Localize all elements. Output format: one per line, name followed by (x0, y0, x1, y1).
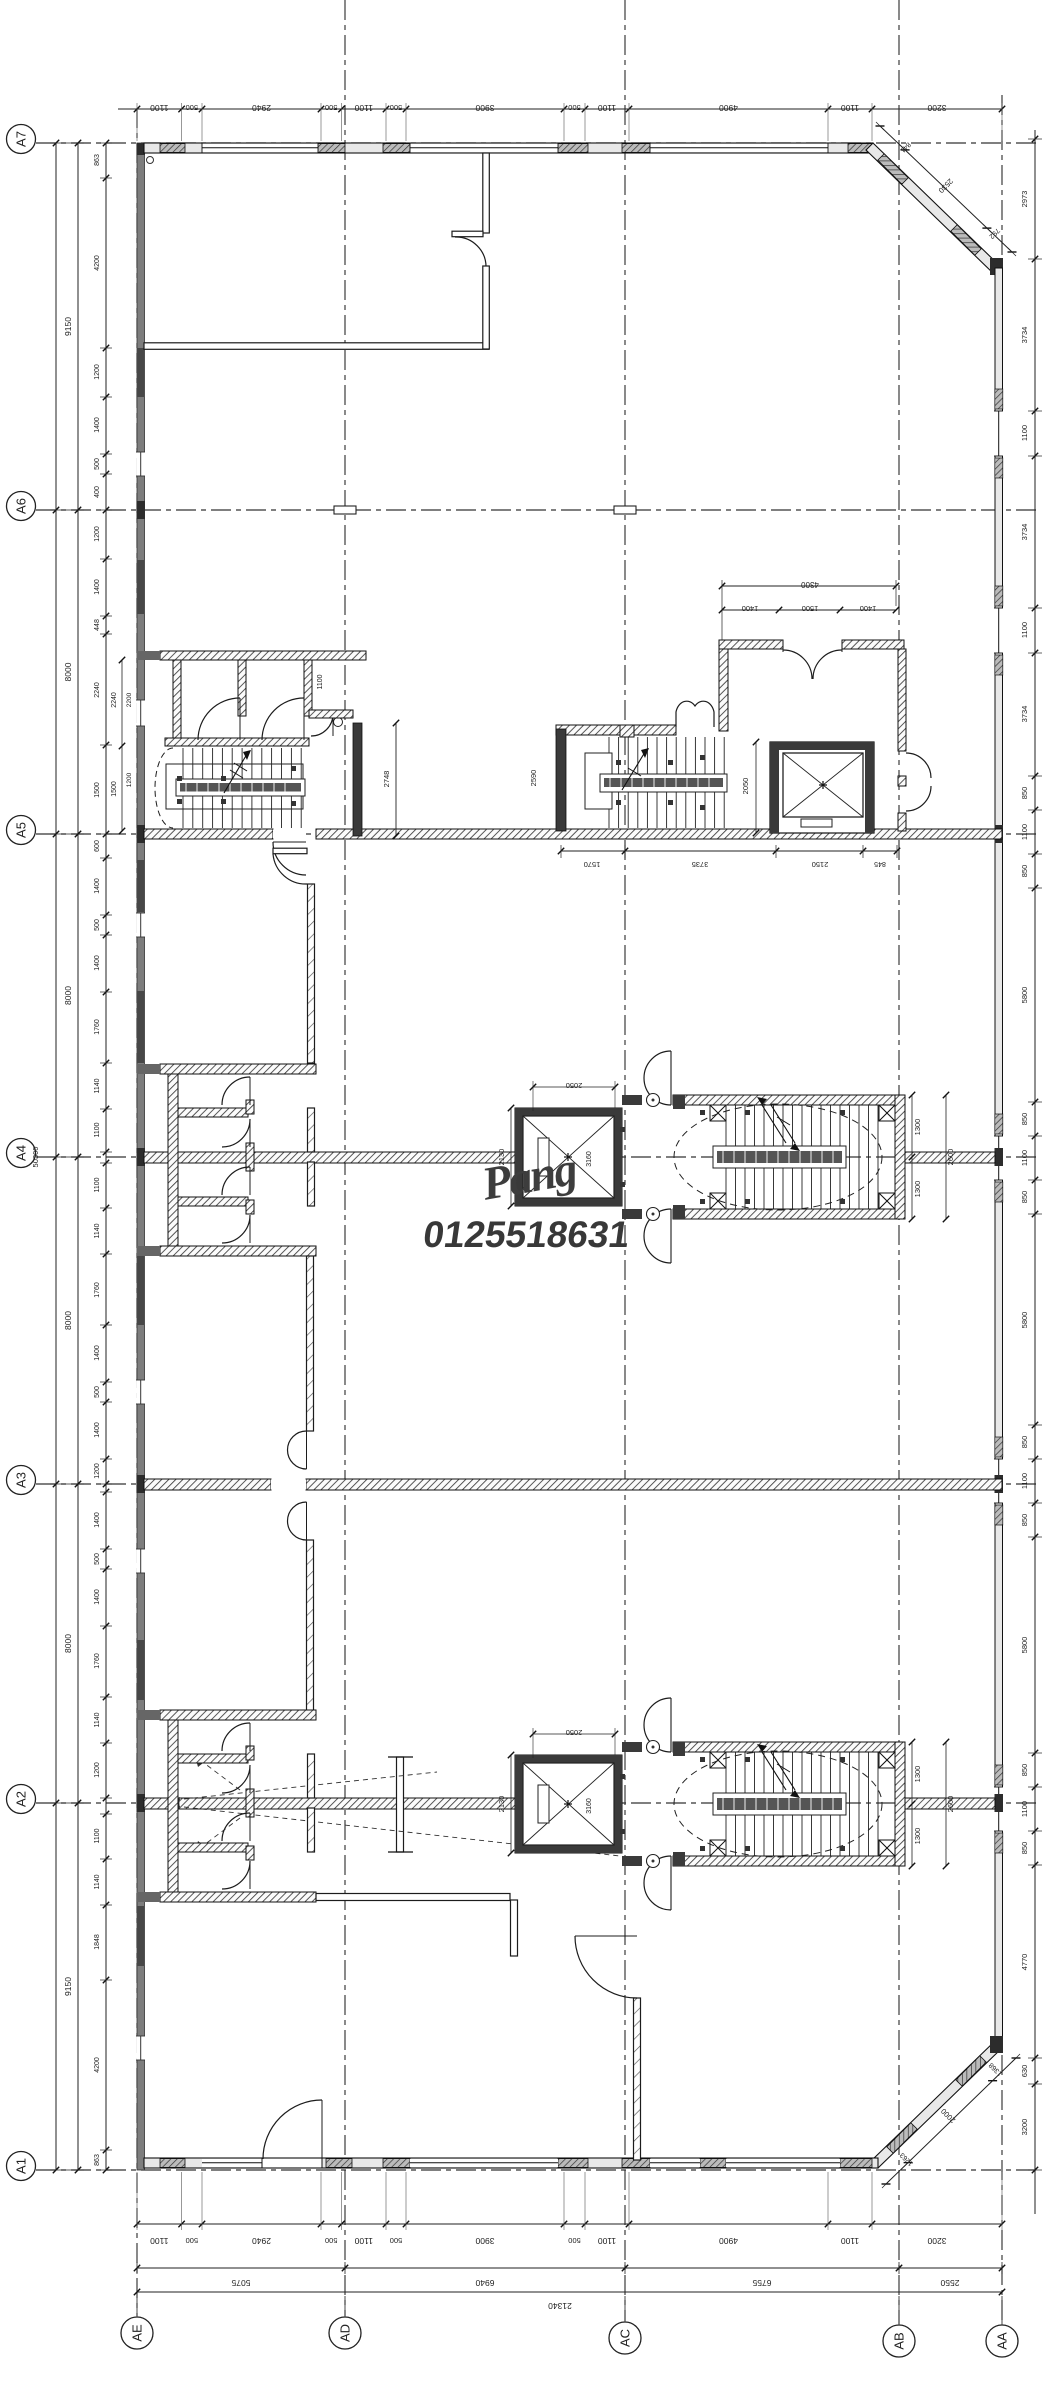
svg-text:2973: 2973 (1020, 191, 1029, 208)
svg-text:500: 500 (325, 2236, 338, 2245)
svg-text:4900: 4900 (719, 103, 738, 113)
grid AC wall stub in core (620, 725, 634, 737)
room door bay A2-A1 (575, 1936, 637, 1998)
wall on grid A4 left (144, 1152, 515, 1163)
svg-text:1500: 1500 (111, 781, 118, 797)
svg-text:850: 850 (1020, 787, 1029, 800)
wall right of stair (309, 710, 362, 836)
svg-text:6940: 6940 (475, 2278, 494, 2288)
svg-text:1100: 1100 (150, 103, 169, 113)
svg-text:1300: 1300 (913, 1119, 922, 1136)
top dimension chain (118, 103, 1005, 141)
svg-text:1200: 1200 (94, 526, 101, 542)
svg-text:1100: 1100 (94, 1122, 101, 1137)
watermark phone number (421, 1213, 633, 1255)
svg-text:21340: 21340 (548, 2301, 572, 2311)
stair tread markers (177, 766, 296, 806)
grid line AB (vertical) (898, 0, 900, 2324)
svg-text:1140: 1140 (94, 1078, 101, 1093)
svg-text:2600: 2600 (946, 1149, 955, 1166)
svg-text:400: 400 (94, 486, 101, 498)
svg-text:2050: 2050 (741, 778, 750, 795)
svg-text:0125518631: 0125518631 (421, 1213, 633, 1255)
local dims 2240 1500 (111, 657, 133, 834)
svg-text:4770: 4770 (1020, 1954, 1029, 1971)
elevator dims at A2 (497, 1728, 618, 1856)
toilet cluster at grid A2: doors (222, 1723, 250, 1889)
grid line AC (vertical) (624, 0, 626, 2321)
grid bubble A4 (7, 1139, 36, 1168)
dimension 2748 (382, 720, 399, 839)
svg-text:1100: 1100 (1020, 1473, 1029, 1489)
door at bottom wall (263, 2100, 322, 2159)
svg-text:630: 630 (1020, 2065, 1029, 2078)
bottom exterior wall (144, 2158, 878, 2168)
svg-text:8000: 8000 (63, 662, 73, 681)
svg-text:1100: 1100 (317, 674, 324, 689)
svg-text:1100: 1100 (1020, 425, 1029, 441)
svg-text:1300: 1300 (913, 1828, 922, 1845)
stair dims right of A4 core (909, 1092, 955, 1222)
svg-text:1200: 1200 (94, 1463, 101, 1479)
svg-text:863: 863 (94, 154, 101, 166)
svg-text:1140: 1140 (94, 1223, 101, 1238)
stair break line and arrows at A4 (757, 1097, 800, 1151)
svg-text:500: 500 (325, 103, 338, 112)
svg-text:A7: A7 (14, 131, 29, 147)
svg-text:8000: 8000 (63, 1634, 73, 1653)
svg-text:A6: A6 (14, 498, 29, 514)
wall extension below A2 cluster (316, 1894, 518, 1957)
svg-text:3160: 3160 (586, 1798, 593, 1814)
demolition dashed arrows at A2 (168, 1756, 620, 1856)
grid bubble AD (329, 2317, 361, 2349)
svg-text:9150: 9150 (63, 317, 73, 336)
svg-text:1400: 1400 (94, 1512, 101, 1528)
top wall corner circle detail (147, 157, 154, 164)
svg-text:850: 850 (1020, 1436, 1029, 1449)
watermark Pang (477, 1143, 581, 1211)
stair treads at A4 (713, 1105, 878, 1209)
svg-text:1400: 1400 (742, 604, 759, 613)
svg-text:9150: 9150 (63, 1977, 73, 1996)
dims 1400 1500 1400 (719, 604, 899, 613)
stair arrow right core (622, 748, 649, 790)
stair walls at A2 (622, 1742, 905, 1866)
svg-text:A1: A1 (14, 2158, 29, 2174)
svg-text:8000: 8000 (63, 986, 73, 1005)
svg-text:2748: 2748 (382, 771, 391, 788)
bottom-right angled exterior wall (871, 2036, 1003, 2168)
svg-text:500: 500 (94, 1386, 101, 1398)
svg-text:1100: 1100 (354, 103, 373, 113)
svg-text:AC: AC (618, 2329, 633, 2347)
svg-text:850: 850 (1020, 1764, 1029, 1777)
svg-text:3900: 3900 (475, 2236, 494, 2246)
toilet doors bay A6-A5 (198, 698, 304, 740)
top-right angled dimension chain (876, 122, 1017, 256)
svg-text:8000: 8000 (63, 1311, 73, 1330)
grid bubble AC (609, 2322, 641, 2354)
svg-text:850: 850 (1020, 1191, 1029, 1204)
stair corner posts at A2 (710, 1752, 895, 1856)
svg-text:500: 500 (94, 458, 101, 470)
svg-text:1400: 1400 (94, 1589, 101, 1605)
stair dims right of A2 core (909, 1739, 955, 1869)
wall on grid A3 (144, 1479, 1002, 1490)
svg-text:1100: 1100 (841, 2236, 860, 2246)
svg-text:AB: AB (892, 2332, 907, 2349)
svg-text:1400: 1400 (94, 579, 101, 595)
svg-text:5800: 5800 (1020, 1312, 1029, 1329)
grid bubble A1 (7, 2152, 36, 2181)
left exterior wall (136, 143, 145, 2170)
svg-text:500: 500 (94, 1553, 101, 1565)
door in upper-left room (452, 231, 486, 268)
entrance double door (783, 649, 842, 679)
svg-text:1100: 1100 (1020, 1801, 1029, 1817)
svg-text:1400: 1400 (94, 1345, 101, 1361)
grid bubble AB (883, 2325, 915, 2357)
svg-text:A2: A2 (14, 1791, 29, 1807)
svg-text:1100: 1100 (94, 1177, 101, 1192)
svg-text:3734: 3734 (1020, 706, 1029, 723)
svg-text:1570: 1570 (584, 860, 601, 869)
grid bubble A3 (7, 1466, 36, 1495)
stair treads at A2 (713, 1752, 878, 1856)
svg-text:500: 500 (390, 103, 403, 112)
svg-text:2590: 2590 (529, 770, 538, 787)
grid bubble A7 (7, 125, 36, 154)
grid line AD (vertical) (344, 0, 346, 2316)
svg-text:1300: 1300 (913, 1766, 922, 1783)
stair dashed ellipse at A2 (674, 1751, 882, 1857)
svg-text:1100: 1100 (150, 2236, 169, 2246)
grid line A1 (horizontal) (36, 2169, 1040, 2171)
svg-text:A3: A3 (14, 1472, 29, 1488)
bottom dimension chain row 1 (134, 2172, 1005, 2246)
stair tread markers right core (616, 755, 705, 810)
grid line A3 (horizontal) (36, 1483, 1040, 1485)
svg-text:1100: 1100 (354, 2236, 373, 2246)
room wall bay A3-A2 vertical (307, 1540, 314, 1712)
svg-text:2600: 2600 (946, 1796, 955, 1813)
svg-text:1400: 1400 (94, 955, 101, 971)
svg-text:4200: 4200 (94, 2057, 101, 2073)
grid bubble A6 (7, 492, 36, 521)
stair bay A6-A5 right (556, 729, 727, 831)
svg-text:600: 600 (94, 840, 101, 852)
svg-text:1100: 1100 (94, 1828, 101, 1843)
swing doors at A3 wall (271, 1431, 307, 1540)
svg-text:1400: 1400 (94, 878, 101, 894)
stair corner posts at A4 (710, 1105, 895, 1209)
stair bay A6-A5 (166, 748, 305, 828)
svg-text:1400: 1400 (94, 1422, 101, 1438)
svg-text:1100: 1100 (1020, 1150, 1029, 1166)
svg-text:1100: 1100 (598, 103, 617, 113)
scalloped feature next to stair (676, 701, 714, 727)
room door bay A5-A4 (273, 848, 307, 884)
toilet block walls bay A6-A5 (137, 651, 366, 746)
door in A5 wall (273, 830, 306, 876)
left overall dimension lines (31, 140, 84, 2173)
svg-text:2940: 2940 (252, 2236, 271, 2246)
svg-text:2940: 2940 (252, 103, 271, 113)
svg-text:2050: 2050 (566, 1081, 583, 1090)
svg-text:500: 500 (94, 919, 101, 931)
svg-text:850: 850 (1020, 1514, 1029, 1527)
svg-text:448: 448 (94, 619, 101, 631)
svg-text:1848: 1848 (94, 1934, 101, 1950)
svg-text:1760: 1760 (94, 1653, 101, 1669)
wall on grid A5 (144, 829, 1002, 839)
grid bubble AE (121, 2317, 153, 2349)
svg-text:500: 500 (186, 103, 199, 112)
svg-text:1500: 1500 (94, 782, 101, 798)
T-shaped wall stub on A2 (388, 1757, 413, 1852)
bottom-right angled dimension chain (882, 2054, 1021, 2188)
svg-text:AA: AA (995, 2332, 1010, 2350)
svg-text:850: 850 (1020, 1842, 1029, 1855)
svg-text:6755: 6755 (752, 2278, 771, 2288)
grid bubble A2 (7, 1785, 36, 1814)
grid line A4 (horizontal) (36, 1156, 1040, 1158)
grid line A2 (horizontal) (36, 1802, 1040, 1804)
svg-text:2150: 2150 (812, 860, 829, 869)
svg-text:3200: 3200 (927, 103, 946, 113)
svg-text:2550: 2550 (940, 2278, 959, 2288)
lobby doors at A2 core (644, 1698, 671, 1910)
stair tread markers at A2 (620, 1757, 845, 1851)
bottom dimension chain total 21340 (134, 2289, 1005, 2311)
room wall bay A4-A3 vertical (307, 1256, 314, 1431)
svg-text:4300: 4300 (801, 580, 819, 589)
svg-text:1500: 1500 (802, 604, 819, 613)
svg-text:3735: 3735 (692, 860, 709, 869)
lobby walls bay A6-A5 right core (556, 640, 906, 831)
grid line AE (vertical) (136, 108, 138, 2316)
lobby doors at A4 core (644, 1051, 671, 1263)
grid line A5 (horizontal) (36, 833, 1040, 835)
stair tread markers at A4 (620, 1110, 845, 1204)
room wall bay A5-A4 vertical (308, 884, 315, 1063)
right dimension chain (1020, 130, 1042, 2214)
svg-text:1760: 1760 (94, 1282, 101, 1298)
svg-text:3200: 3200 (1020, 2119, 1029, 2136)
svg-text:3160: 3160 (586, 1151, 593, 1167)
door opening in bottom wall (262, 2159, 322, 2167)
toilet cluster at grid A4: right corridor walls (308, 1108, 315, 1206)
svg-text:1200: 1200 (126, 772, 133, 787)
svg-text:AD: AD (338, 2324, 353, 2342)
stair dashed curve (155, 748, 173, 828)
svg-text:2240: 2240 (94, 682, 101, 698)
svg-text:500: 500 (390, 2236, 403, 2245)
toilet cluster at grid A2: walls (137, 1710, 316, 1902)
svg-text:1200: 1200 (94, 364, 101, 380)
bubble stems (137, 2296, 1002, 2325)
grid A6 marker plates (334, 506, 636, 514)
dims below A5: 1570 3735 2150 845 (558, 845, 900, 869)
wall on grid A4 right (905, 1152, 995, 1163)
grid line AA (vertical) (1001, 95, 1003, 2324)
svg-text:1140: 1140 (94, 1712, 101, 1727)
svg-text:2200: 2200 (126, 692, 133, 707)
svg-text:1300: 1300 (913, 1181, 922, 1198)
right exterior wall (994, 268, 1003, 2048)
top-right angled exterior wall (866, 143, 1003, 275)
svg-text:5800: 5800 (1020, 987, 1029, 1004)
svg-text:50300: 50300 (31, 1147, 40, 1168)
svg-text:4200: 4200 (94, 255, 101, 271)
svg-text:1100: 1100 (1020, 622, 1029, 638)
svg-text:1100: 1100 (841, 103, 860, 113)
svg-text:500: 500 (568, 103, 581, 112)
grid line A7 (horizontal) (36, 142, 1040, 144)
svg-text:1100: 1100 (598, 2236, 617, 2246)
wall on grid A2 right (905, 1798, 995, 1809)
toilet cluster at grid A4: doors (222, 1077, 250, 1243)
svg-text:500: 500 (186, 2236, 199, 2245)
svg-text:5075: 5075 (231, 2278, 250, 2288)
svg-text:3200: 3200 (927, 2236, 946, 2246)
elevator dim 2050 (741, 739, 759, 836)
elevator dims at A4 (497, 1081, 618, 1209)
svg-text:1140: 1140 (94, 1874, 101, 1889)
svg-text:500: 500 (568, 2236, 581, 2245)
svg-text:A5: A5 (14, 822, 29, 838)
svg-text:1400: 1400 (860, 604, 877, 613)
bottom dimension chain row 2 (134, 2262, 1005, 2288)
toilet cluster at grid A4: walls (137, 1064, 316, 1256)
grid bubble AA (986, 2325, 1018, 2357)
svg-text:4900: 4900 (719, 2236, 738, 2246)
svg-text:1760: 1760 (94, 1019, 101, 1035)
svg-text:850: 850 (1020, 865, 1029, 878)
svg-text:5800: 5800 (1020, 1637, 1029, 1654)
room wall bay A2-A1 vertical (634, 1998, 641, 2160)
dim 4300 over core (719, 580, 899, 640)
svg-text:2240: 2240 (111, 692, 118, 708)
lobby doors to east corridor (906, 753, 931, 811)
svg-text:AE: AE (130, 2324, 145, 2342)
small door right of toilets (311, 714, 343, 736)
stair dashed ellipse at A4 (674, 1104, 882, 1210)
svg-text:A4: A4 (14, 1145, 29, 1161)
wall below door upper-left room (483, 266, 490, 349)
svg-text:863: 863 (94, 2154, 101, 2166)
stair up arrow (224, 750, 251, 793)
svg-text:2050: 2050 (566, 1728, 583, 1737)
elevator bay A6-A5 (770, 742, 874, 833)
svg-text:1200: 1200 (94, 1762, 101, 1778)
svg-text:1100: 1100 (1020, 824, 1029, 840)
svg-text:845: 845 (874, 860, 886, 867)
elevator at grid A2 (515, 1755, 622, 1853)
elevator at grid A4 (515, 1108, 622, 1206)
stair break line and arrows at A2 (757, 1744, 800, 1798)
wall on grid A2 left (144, 1798, 515, 1809)
svg-text:3734: 3734 (1020, 524, 1029, 541)
grid bubble A5 (7, 816, 36, 845)
left fine dimension chain (94, 140, 112, 2173)
stair walls at A4 (622, 1095, 905, 1219)
svg-text:2130: 2130 (497, 1796, 506, 1813)
svg-text:850: 850 (1020, 1113, 1029, 1126)
svg-text:1400: 1400 (94, 417, 101, 433)
svg-text:3900: 3900 (475, 103, 494, 113)
grid line A6 (horizontal) (36, 509, 1040, 511)
toilet cluster at grid A2: right corridor walls (308, 1754, 315, 1852)
svg-text:3734: 3734 (1020, 327, 1029, 344)
upper-left room partition wall (144, 153, 489, 349)
top exterior wall (144, 143, 873, 164)
